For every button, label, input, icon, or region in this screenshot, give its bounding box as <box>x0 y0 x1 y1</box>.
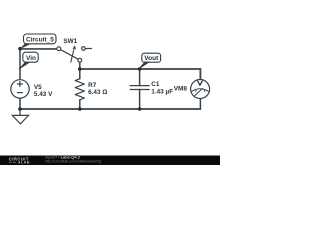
resistor R7 <box>75 79 84 100</box>
node R7 bottom <box>78 107 82 111</box>
wire mid rail (switch pole to voltmeter) <box>80 69 201 80</box>
wire top-left horizontal (node to switch) <box>20 48 57 50</box>
label flag Circuit_5 <box>19 34 56 49</box>
node switch pole / mid rail <box>78 67 82 71</box>
capacitor C1 <box>130 86 150 90</box>
label flag Vin <box>18 52 38 69</box>
switch SW1 <box>57 45 92 62</box>
svg-text:1.43 µF: 1.43 µF <box>151 89 173 96</box>
voltmeter V letter <box>198 81 203 85</box>
wire R7 bottom stem <box>79 100 81 109</box>
wire left vertical (node to V5 top) <box>19 49 21 80</box>
svg-text:Vout: Vout <box>144 55 159 62</box>
svg-text:Circuit_5: Circuit_5 <box>26 36 54 43</box>
voltmeter VM8 <box>191 80 210 99</box>
svg-text:Vin: Vin <box>26 55 36 62</box>
svg-text:VM8: VM8 <box>174 85 188 92</box>
wire V5 bottom to rail <box>19 98 21 109</box>
footer bar <box>0 156 220 166</box>
node C1 bottom <box>138 107 142 111</box>
junction dots <box>18 47 141 111</box>
voltage source V5 <box>11 80 29 98</box>
wire C1 top stem <box>139 69 141 86</box>
logo CircuitLab <box>9 156 30 164</box>
node V5 minus / ground <box>18 107 22 111</box>
svg-text:◄LAB: ◄LAB <box>17 161 30 165</box>
svg-text:C1: C1 <box>151 81 160 88</box>
node Vin (top-left) <box>18 47 22 51</box>
component name/value texts <box>34 38 187 98</box>
label flag Vout <box>138 53 160 69</box>
svg-text:5.43 V: 5.43 V <box>34 91 53 98</box>
wire voltmeter bottom to rail <box>199 98 201 109</box>
ground <box>12 109 28 124</box>
svg-text:6.43 Ω: 6.43 Ω <box>88 89 107 96</box>
wire bottom rail <box>20 108 200 110</box>
svg-text:SW1: SW1 <box>63 38 77 45</box>
wire C1 bottom stem <box>139 90 141 110</box>
wire R7 top stem <box>79 69 81 79</box>
node Vout (C1 top) <box>138 67 142 71</box>
svg-text:http://circuitlab.com/c/88em63: http://circuitlab.com/c/88em63wr52j <box>45 160 102 164</box>
wire switch pole to mid rail <box>79 62 81 69</box>
